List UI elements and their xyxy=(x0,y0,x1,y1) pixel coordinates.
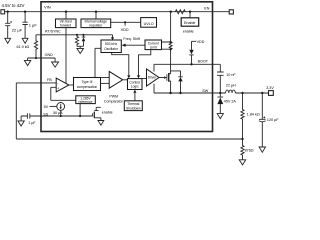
wire sense drain line xyxy=(169,12,171,74)
node dot sense upper xyxy=(170,41,172,43)
svg-text:forward: forward xyxy=(60,23,71,27)
wire SS line xyxy=(30,115,93,117)
svg-text:PWM: PWM xyxy=(109,95,118,99)
wire driver to SW xyxy=(153,84,155,93)
svg-text:enable: enable xyxy=(102,110,113,114)
svg-text:RT/SYNC: RT/SYNC xyxy=(45,30,61,34)
node dot RT gnd xyxy=(35,57,37,59)
svg-text:876Ω: 876Ω xyxy=(245,149,254,153)
wire FB xyxy=(16,83,242,139)
svg-text:reference: reference xyxy=(79,100,93,104)
svg-text:UVLO: UVLO xyxy=(144,22,154,26)
wire error amp out xyxy=(69,84,74,86)
node dot regulator xyxy=(95,11,97,13)
resistor divider 1.84k xyxy=(241,93,260,139)
node dot FB tap xyxy=(241,138,243,140)
node dot enable top xyxy=(189,11,191,13)
ground GND pin xyxy=(52,62,59,67)
ground RT external xyxy=(24,60,30,65)
box 1.285V reference xyxy=(76,96,96,104)
svg-text:VDD: VDD xyxy=(121,28,129,32)
node dot SS ref xyxy=(79,115,81,117)
wire ramp to PWM xyxy=(101,77,110,79)
node dot output cap xyxy=(261,92,263,94)
ground SS cap xyxy=(18,121,24,126)
svg-text:Control: Control xyxy=(129,80,140,84)
svg-text:500 kHz: 500 kHz xyxy=(105,42,117,46)
svg-text:EN: EN xyxy=(204,7,209,11)
ground RT internal xyxy=(77,48,84,53)
wire SW rail xyxy=(154,92,226,94)
wire regulator riser xyxy=(95,12,97,19)
svg-text:Driver: Driver xyxy=(148,76,157,80)
svg-text:1.84 kΩ: 1.84 kΩ xyxy=(247,112,260,116)
svg-text:regulator: regulator xyxy=(89,23,103,27)
wire BOOT rail xyxy=(154,63,213,65)
svg-text:compensation: compensation xyxy=(77,85,98,89)
node dot source xyxy=(169,92,171,94)
op-amp PWM comparator xyxy=(109,71,123,88)
resistor RT internal xyxy=(75,35,78,47)
svg-text:VIN: VIN xyxy=(44,4,51,9)
svg-text:enable: enable xyxy=(183,29,194,33)
box Enable xyxy=(181,18,199,26)
svg-text:Limit: Limit xyxy=(150,45,157,49)
node dot VDD xyxy=(124,21,126,23)
ground cap1 xyxy=(5,38,11,43)
arrow clock into control logic xyxy=(127,75,130,78)
svg-text:FB: FB xyxy=(47,78,52,82)
svg-text:10 nF: 10 nF xyxy=(226,73,236,77)
svg-text:VDD: VDD xyxy=(197,40,205,44)
diode NMOS body xyxy=(171,71,183,93)
box current limit xyxy=(145,40,162,50)
op-amp IC outline xyxy=(41,2,213,132)
diode RT clamp xyxy=(82,35,86,47)
box Vin feed forward xyxy=(56,19,77,28)
capacitor SS 1uF xyxy=(21,113,36,125)
svg-text:Shutdown: Shutdown xyxy=(126,106,141,110)
arrow gate xyxy=(164,76,166,79)
node dot body diode xyxy=(179,92,181,94)
wire current limit output xyxy=(139,50,151,76)
svg-text:22 µH: 22 µH xyxy=(226,83,236,87)
transistor power NMOS xyxy=(167,73,171,93)
svg-text:Enable: Enable xyxy=(184,21,195,25)
wire freq shift xyxy=(125,44,145,46)
wire gate xyxy=(159,77,166,79)
svg-text:5V: 5V xyxy=(44,105,49,109)
wire gnd link xyxy=(28,58,55,62)
current source 50uA xyxy=(53,103,64,117)
svg-text:-: - xyxy=(57,81,58,85)
capacitor output 120uF xyxy=(259,93,279,147)
box thermal shutdown xyxy=(124,101,142,111)
node dot divider top xyxy=(241,92,243,94)
input terminal xyxy=(1,10,5,14)
wire output xyxy=(243,92,269,94)
wire reference to SS xyxy=(79,104,81,116)
capacitor 22uF xyxy=(5,12,23,39)
svg-text:61.9 kΩ: 61.9 kΩ xyxy=(17,45,30,49)
wire ramp xyxy=(95,48,101,77)
svg-text:BOOT: BOOT xyxy=(198,60,209,64)
svg-text:45V 2A: 45V 2A xyxy=(224,99,237,103)
ground catch diode xyxy=(217,114,223,119)
ground SS fet xyxy=(98,121,104,126)
svg-text:1 µF: 1 µF xyxy=(28,121,36,125)
svg-text:1 µF: 1 µF xyxy=(29,22,38,27)
EN terminal xyxy=(229,10,233,14)
resistor 61.9 kOhm xyxy=(17,35,38,58)
wire thermal to control xyxy=(134,93,136,101)
node dot sense top xyxy=(170,11,172,13)
svg-text:Freq. Shift: Freq. Shift xyxy=(123,37,140,41)
node dot SS source xyxy=(60,115,62,117)
node dot RT resistor xyxy=(76,34,78,36)
svg-text:Comparator: Comparator xyxy=(104,100,124,104)
wire control to driver xyxy=(142,78,147,80)
ground cap2 xyxy=(22,38,28,43)
svg-text:Oscillator: Oscillator xyxy=(104,47,119,51)
wire feedfwd down xyxy=(65,28,67,84)
wire clock xyxy=(112,53,129,76)
inductor 22uH xyxy=(226,83,243,93)
resistor current sense xyxy=(169,42,172,50)
arrow thermal up xyxy=(133,90,136,93)
box UVLO U3 xyxy=(141,18,157,28)
arrow freq shift xyxy=(122,44,126,47)
node junction dot cap2 xyxy=(24,11,26,13)
wire PWM out xyxy=(123,79,128,81)
wire enable riser xyxy=(189,12,191,18)
capacitor boot 10nF xyxy=(213,64,237,93)
svg-text:+: + xyxy=(57,87,59,91)
box 500kHz oscillator xyxy=(101,40,121,53)
node junction dot cap1 xyxy=(7,11,9,13)
wire VIN rail xyxy=(5,11,230,13)
wire current limit sense taps xyxy=(162,42,171,49)
node dot sense lower xyxy=(170,48,172,50)
svg-text:3.3V: 3.3V xyxy=(266,86,274,90)
diode boot VDD xyxy=(189,41,196,64)
svg-text:22 µF: 22 µF xyxy=(12,27,23,32)
svg-text:Logic: Logic xyxy=(131,85,139,89)
capacitor 1uF input xyxy=(22,12,37,39)
op-amp driver xyxy=(147,69,160,86)
arrow into oscillator xyxy=(111,37,114,40)
svg-text:Type III: Type III xyxy=(82,80,93,84)
wire feedfwd riser xyxy=(65,12,67,19)
transistor SS discharge xyxy=(93,107,101,120)
wire regulator to UVLO xyxy=(111,22,141,25)
wire boot to driver xyxy=(153,64,155,71)
node dot feedfwd xyxy=(65,11,67,13)
box internal voltage regulator xyxy=(81,19,111,28)
node dot SW ext xyxy=(219,92,221,94)
box type III compensation xyxy=(74,78,101,91)
wire 5V to source xyxy=(50,105,57,107)
ground output cap xyxy=(259,147,265,152)
wire reference to plus input xyxy=(51,87,76,100)
svg-text:4.5V to 42V: 4.5V to 42V xyxy=(2,3,25,8)
svg-text:50 µA: 50 µA xyxy=(53,111,63,115)
diode catch 45V 2A xyxy=(217,93,236,114)
op-amp error amplifier xyxy=(56,78,69,92)
box control logic xyxy=(128,79,143,90)
resistor EN pull-up xyxy=(175,10,185,14)
node dot RT diode xyxy=(82,34,84,36)
arrow current limit into control logic xyxy=(137,75,140,78)
wire comp out to PWM xyxy=(101,82,110,84)
output terminal 3.3V xyxy=(269,91,274,96)
ground divider xyxy=(239,160,246,165)
wire RT line xyxy=(36,35,113,38)
node dot boot diode xyxy=(190,63,192,65)
resistor divider 876 xyxy=(241,139,254,160)
svg-text:GND: GND xyxy=(45,53,54,57)
svg-text:120 µF: 120 µF xyxy=(267,118,279,122)
wire RT bottom join xyxy=(77,46,84,48)
